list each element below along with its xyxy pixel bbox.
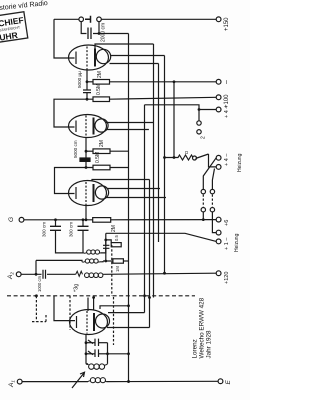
wire: C8 stub (105, 240, 107, 245)
wire: down to selector (198, 110, 200, 121)
wire: socket right down to mid line (212, 212, 216, 233)
wire: R5 right to bus (110, 167, 129, 169)
terminal +4- top (216, 107, 221, 112)
wire: R4 right to bus (110, 150, 129, 152)
svg-text:+150: +150 (224, 17, 230, 31)
wire: L4 ends (86, 363, 88, 365)
tube V3 filament bulb (95, 186, 108, 199)
vertical bus 3 (149, 180, 151, 328)
selector contact a (197, 121, 201, 125)
node C4 bottom (85, 166, 88, 169)
terminal +150 (216, 17, 221, 22)
tube V1 cathode (75, 52, 77, 65)
wire: +1 heater line (106, 233, 216, 241)
tube V2 filament bulb (95, 119, 108, 132)
wire: bypass left stub (81, 22, 86, 34)
node screen junction (127, 304, 130, 307)
maker text block (192, 297, 213, 358)
node C5 top (54, 218, 57, 221)
wire: w2 left end (36, 260, 82, 261)
wire: V3 anode top right (92, 180, 150, 181)
wire: V4 left lead (54, 296, 75, 321)
wire: grid lead tube V1 (54, 19, 75, 58)
selector contact c (193, 156, 197, 160)
terminal mid heater (216, 230, 221, 235)
svg-text:2: 2 (201, 136, 207, 139)
svg-text:2M: 2M (111, 225, 117, 232)
wire: bus2 into V4 grid2 (108, 312, 145, 314)
wire: bypass right stub (93, 22, 99, 34)
capacitor C4 5000cm (block) (80, 158, 90, 161)
node grid stub (92, 296, 95, 299)
node bypass junction (98, 32, 101, 35)
svg-text:Heizung: Heizung (237, 153, 243, 172)
wire: heater row +4 (199, 109, 216, 111)
capacitor C9 1000cm (43, 270, 46, 279)
node bus6 bottom (163, 272, 166, 275)
tube V3 cathode (75, 187, 77, 199)
node C8 bottom (104, 260, 107, 263)
node rc2 right (106, 352, 109, 355)
node rc2 left (85, 352, 88, 355)
node zig feed (163, 156, 166, 159)
svg-text:A1: A1 (8, 380, 16, 388)
tube V1 grid (dashed) (86, 47, 88, 71)
tube V2 anode (93, 118, 95, 135)
wire: V1 anode up and right (95, 44, 154, 49)
tube V2 envelope (69, 115, 107, 138)
node w2/A2 (35, 273, 38, 276)
arrow mark C10 (88, 340, 93, 344)
wire: G line to +6 terminal (111, 219, 217, 221)
resistor R1 2M (93, 80, 110, 85)
tube V1 anode (94, 49, 96, 67)
svg-text:+ 4 –: + 4 – (224, 105, 230, 118)
chassis dashed line (7, 295, 195, 297)
wire: terminal to connector pin right (212, 169, 214, 190)
wire: V3 filament top (107, 188, 161, 190)
switch S1 contact left (79, 17, 84, 22)
tube V4 grid (dashed) (86, 311, 88, 334)
wire: C8 bottom stub (105, 248, 107, 261)
resistor R7 2M series (93, 218, 111, 223)
tube V1 filament bulb (96, 49, 110, 63)
selector blade (196, 154, 209, 159)
tube V2 grid (dashed) (85, 116, 87, 138)
node detector junction (104, 239, 107, 242)
wire: grid lead tube V2 (54, 99, 93, 127)
wire: w2 stub down to A2 line (35, 260, 37, 274)
svg-text:G: G (8, 217, 15, 222)
svg-text:+6: +6 (224, 220, 230, 226)
svg-text:300 cm: 300 cm (42, 222, 47, 237)
wire: to R1 (87, 81, 93, 83)
terminal A1 (17, 379, 22, 384)
coupling arrow (72, 372, 85, 388)
arrow mark C11 (88, 351, 93, 355)
wire: bypass to bus (99, 33, 129, 35)
capacitor C10 (95, 339, 99, 346)
svg-text:1M: 1M (115, 266, 120, 272)
wire: V2 grid drop (85, 138, 87, 152)
node V2 junction (85, 150, 88, 153)
connector socket bottom pins (201, 208, 205, 212)
node C6 top (82, 218, 85, 221)
wire: R8 link (106, 240, 111, 243)
wire: A2 line to +120 (47, 273, 76, 275)
wire: switch feed from bus (145, 105, 200, 110)
tube V3 grid (dashed) (85, 182, 87, 205)
wire: C4 stubs (85, 151, 87, 158)
terminal G (19, 217, 24, 222)
terminal +120 (216, 271, 221, 276)
dashed drop left (32, 296, 46, 322)
tube V1 envelope (69, 45, 109, 70)
svg-text:Lorenz: Lorenz (192, 339, 199, 358)
terminal heater bottom (216, 165, 221, 170)
archive stamp box (0, 12, 28, 45)
svg-text:0.5M: 0.5M (95, 152, 101, 163)
node bus3 chassis (148, 296, 151, 299)
svg-text:300 cm: 300 cm (69, 222, 74, 237)
node switch feed (198, 108, 201, 111)
terminal minus (216, 79, 221, 84)
resistor R9 1M (113, 259, 124, 263)
wire: C11 links (86, 353, 95, 355)
RC block rail right (107, 343, 109, 364)
wire: A1 line (22, 381, 88, 383)
node socket junction (202, 218, 205, 221)
wire: C10 links (86, 342, 95, 344)
terminal +6 (216, 217, 221, 222)
tube V4 cathode (76, 316, 78, 328)
svg-text:1000 cm: 1000 cm (37, 275, 42, 292)
dashed drop mid (69, 296, 71, 330)
wire: V3 cathode drop (85, 205, 87, 220)
vertical bus 5 (158, 64, 160, 243)
wire: C5 stubs (55, 220, 57, 227)
svg-text:Jahr 1928: Jahr 1928 (206, 330, 213, 359)
tube V4 envelope (70, 310, 108, 335)
wire: R2 right to terminal +100 (110, 97, 217, 99)
svg-text:2M: 2M (97, 71, 103, 78)
svg-text:E: E (225, 380, 232, 385)
svg-text:2000 cm: 2000 cm (101, 23, 107, 42)
tube V4 anode (93, 313, 95, 331)
wire: rc2 to bus1 (108, 353, 129, 355)
wire: C6 stubs (82, 220, 84, 227)
svg-text:0.5M: 0.5M (96, 84, 102, 95)
capacitor C1 2000cm (88, 28, 91, 40)
node A1/bus1 (127, 380, 130, 383)
wire: V4 screen top to bus1 (100, 306, 129, 309)
node C2 bottom junction (86, 98, 89, 101)
connector gap (dashed) (203, 195, 212, 207)
svg-text:–: – (223, 80, 230, 84)
wire: to R4 (86, 150, 93, 152)
connector plug top pins (201, 189, 205, 193)
resistor R8 0.5 (111, 243, 121, 247)
svg-text:0.5: 0.5 (114, 235, 119, 241)
wire: w2 right end (100, 260, 103, 263)
wire: R9 to bus (123, 260, 128, 262)
wire: A1 line to E (106, 380, 218, 382)
svg-text:*3g: *3g (74, 284, 80, 292)
wire: w2 to R9 (103, 260, 113, 262)
svg-text:istorie v/d Radio: istorie v/d Radio (0, 0, 48, 12)
terminal +1- (216, 239, 221, 244)
vertical bus 7 (173, 82, 175, 158)
svg-text:Weltecho ERWW 428: Weltecho ERWW 428 (199, 297, 206, 358)
capacitor C11 (95, 349, 99, 357)
wire: top antenna line left (54, 18, 79, 20)
node bus1 rc (127, 352, 130, 355)
vertical bus 6 (164, 56, 166, 274)
terminal A2 (16, 272, 21, 277)
tube V4 filament bulb (96, 314, 110, 328)
svg-text:5000 μμ: 5000 μμ (77, 71, 82, 88)
terminal heater top2 (216, 155, 221, 160)
handwritten header text (0, 0, 48, 12)
wire: w1 right end (100, 240, 106, 253)
wire: R1 right to terminal minus (110, 81, 217, 83)
svg-text:2M: 2M (99, 140, 105, 147)
wire: V4 grid top stubs (87, 298, 89, 312)
wire: V1 grid leak drop (86, 70, 88, 82)
capacitor C5 300cm (50, 226, 61, 230)
wire: V3 filament bottom (107, 197, 167, 199)
svg-text:D: D (184, 150, 189, 154)
wire: C2 stubs (86, 82, 88, 90)
switch S1 contact right (97, 17, 102, 22)
antenna coil L3 (76, 271, 105, 277)
capacitor C6 300cm (78, 226, 89, 230)
vertical bus 4 (153, 44, 155, 298)
capacitor C8 det (103, 245, 109, 248)
output transformer primary L4 (86, 364, 108, 370)
wire: heater tap down (105, 233, 107, 240)
wire: +150 feed to terminal (101, 18, 216, 20)
wire: V2 filament top (106, 122, 154, 124)
svg-text:+120: +120 (224, 272, 230, 284)
svg-text:A2: A2 (7, 272, 15, 280)
node bus7 bottom (173, 156, 176, 159)
wire: V1 filament pin bottom (110, 63, 159, 65)
output transformer secondary L5 (88, 378, 106, 383)
tube V2 cathode (75, 121, 77, 133)
svg-text:UHR: UHR (0, 30, 18, 43)
svg-text:Heizung: Heizung (234, 233, 240, 252)
node bus7 top (173, 80, 176, 83)
wire: bus3 into V4 anode (107, 327, 150, 329)
vertical bus 2 (144, 105, 146, 313)
selector contact b (197, 130, 201, 134)
terminal +100 (216, 95, 221, 100)
IF transformer T1 winding 2 (82, 259, 100, 263)
resistor R2 0.5M (93, 97, 110, 102)
wire: G line across (24, 219, 93, 221)
terminal E (218, 379, 223, 384)
wire: A2 lead (21, 273, 41, 275)
capacitor C2 5000uu (83, 90, 91, 93)
resistor R4 2M (93, 149, 110, 154)
wire: grid lead tube V3 (55, 168, 94, 194)
svg-text:+ 1 –: + 1 – (224, 237, 230, 250)
wire: coil to +120 terminal (105, 273, 217, 274)
IF transformer T1 winding 1 (83, 250, 100, 254)
dashed vertical output can (113, 297, 115, 345)
node rc1 left (85, 341, 88, 344)
dashed vertical IF can (111, 245, 113, 296)
node V1 grid junction (86, 80, 89, 83)
wire: V2 filament bottom (106, 129, 149, 131)
wire: terminal to connector pin left (203, 158, 216, 190)
svg-text:5000 cm: 5000 cm (73, 140, 78, 158)
wire: blade to heater terminal (209, 154, 217, 167)
resistor R5 0.5M (93, 165, 110, 170)
tube V3 envelope (69, 181, 107, 206)
wire: V4 cathode drop (85, 335, 87, 364)
wire: V1 filament pin top (111, 55, 165, 57)
vertical bus 1 (128, 34, 130, 382)
node V3 drop (85, 218, 88, 221)
svg-text:+ 4 –: + 4 – (224, 153, 230, 166)
switch S1 blade (85, 16, 91, 23)
wire: socket left down to +6 line (202, 212, 204, 220)
tube V3 anode (93, 184, 95, 202)
resistor R3 zigzag (165, 155, 193, 160)
node chassis tap (35, 294, 38, 297)
node bus2 chassis (143, 294, 146, 297)
